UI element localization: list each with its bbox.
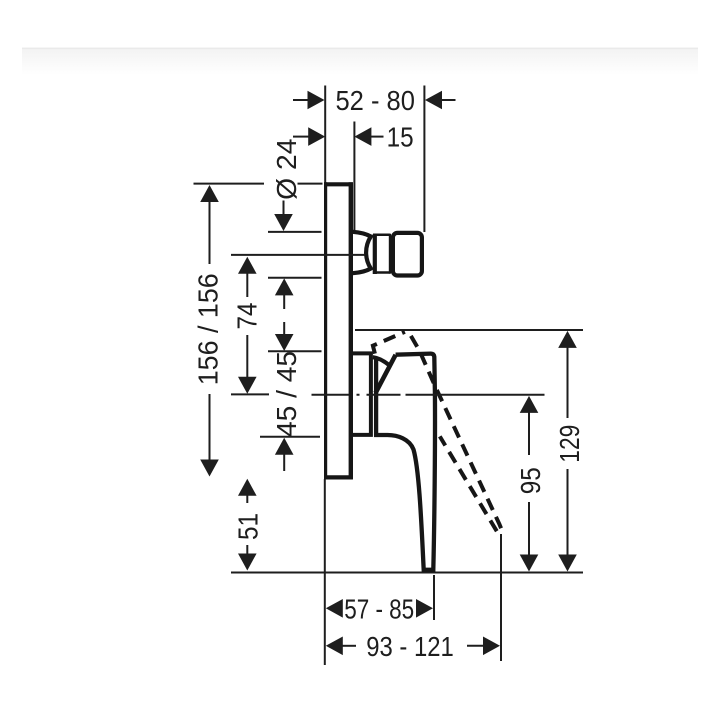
handle body and lever [376,354,435,570]
extension line handle top to 129 [355,329,583,331]
dimension 129 [554,331,585,572]
dimension 95 [515,396,546,572]
extension line plate top horizontal [194,183,323,185]
dimension 45 / 45 [271,351,302,471]
extension line above nut right [423,86,425,233]
dimension 156 / 156 [193,185,224,477]
handle wedge curve [373,357,389,365]
dimension 51 [233,479,264,571]
extension line 15 right [353,122,355,232]
handle front slant [376,355,396,393]
nut [393,233,422,276]
extension line plate bottom down [324,479,326,665]
dashed handle open position [373,332,502,532]
valve centerline right to 95 [406,394,545,396]
stub centerline [231,254,365,256]
dimension Ø24 [271,139,302,351]
svg-text:129: 129 [554,425,585,463]
dimension 52-80 [293,85,456,116]
baseline [231,572,583,574]
extension line stub bottom [268,277,322,279]
svg-text:57 - 85: 57 - 85 [344,593,414,624]
wall plate [324,182,327,479]
svg-text:51: 51 [233,513,264,540]
extension line cartridge bottom [260,436,320,438]
dimension 74 [232,257,263,394]
svg-text:52 - 80: 52 - 80 [336,85,415,116]
centerlines [231,255,545,395]
faucet body [324,182,435,570]
cylinder [373,234,377,274]
dimension 15 [293,122,414,153]
svg-text:156 / 156: 156 / 156 [193,273,224,385]
extension line stub top [268,231,322,233]
extension line above plate left [324,86,326,184]
dimension 57-85 [326,593,433,624]
svg-text:95: 95 [515,467,546,494]
extension line dashed lever down [500,534,502,661]
dimension 93-121 [326,631,500,662]
svg-text:15: 15 [387,122,414,153]
valve centerline dash-dot [312,394,401,396]
svg-text:93 - 121: 93 - 121 [366,631,454,662]
svg-text:45 / 45: 45 / 45 [271,351,302,437]
extension line cartridge top [268,350,322,352]
valve centerline short left segment [231,393,269,395]
header band [22,48,698,50]
svg-text:Ø 24: Ø 24 [271,139,302,200]
svg-text:74: 74 [232,303,263,330]
taper piece [353,232,371,273]
cartridge housing [353,353,371,435]
extension line handle tip down [433,575,435,620]
